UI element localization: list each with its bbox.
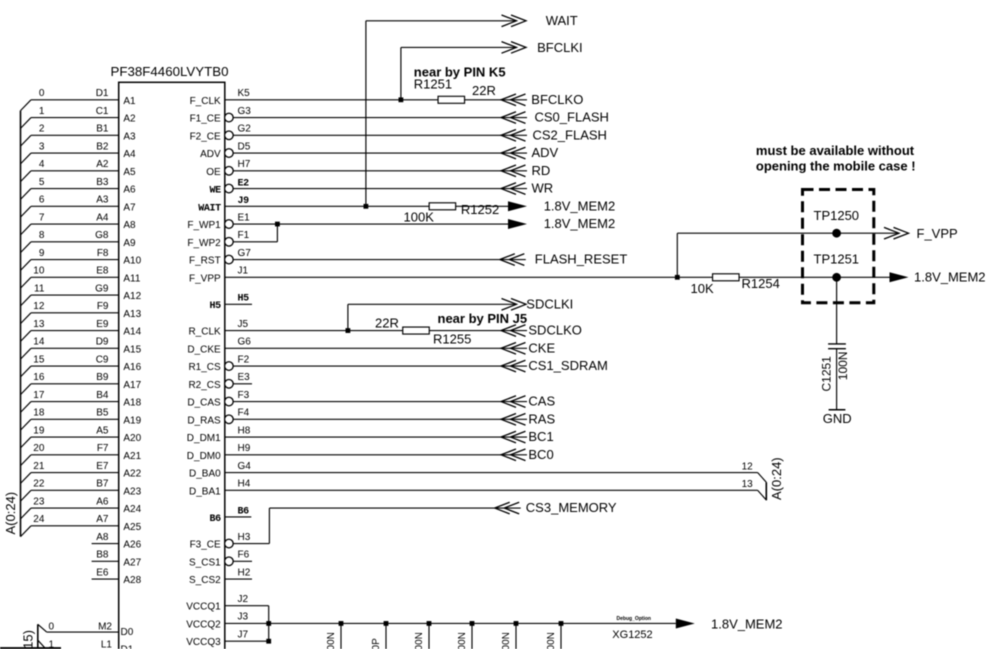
stub wire pin B6 [225,516,252,518]
svg-text:R2_CS: R2_CS [188,380,221,391]
sheet output arrow BFCLKI [502,42,517,54]
svg-text:F3_CE: F3_CE [190,540,221,551]
sheet input arrow CS1_SDRAM [501,360,516,372]
svg-text:8: 8 [39,230,45,241]
svg-text:FLASH_RESET: FLASH_RESET [535,252,628,267]
wire WAIT pin J9 to pullup R1252 [225,205,508,207]
svg-text:VCCQ1: VCCQ1 [186,602,221,613]
svg-text:A4: A4 [96,212,109,223]
wire bus bit 16 to pin A17 [31,383,119,385]
test point dashed enclosure [803,190,874,303]
wire bus bit 8 to pin A9 [31,241,119,243]
wire CS1_SDRAM from pin to arrow [233,365,527,367]
power arrow 1.8V_MEM2 (F_WP) [508,219,527,229]
svg-text:A3: A3 [96,195,109,206]
wire bus bit 18 to pin A19 [31,418,119,420]
svg-text:D1: D1 [96,88,109,99]
wire VCCQ3 pin J7 [225,640,269,642]
bus tap diagonal for bit 21 [21,473,32,484]
svg-text:10P: 10P [371,638,382,649]
power arrow 1.8V_MEM2 (VCCQ rail) [676,618,695,628]
svg-text:J7: J7 [238,629,249,640]
wire CS3_MEMORY line [269,507,520,509]
sheet input arrow RD [501,165,516,177]
wire RD from pin to arrow [233,170,527,172]
svg-text:CAS: CAS [528,394,555,409]
svg-text:L1: L1 [101,639,113,649]
svg-text:A18: A18 [123,398,141,409]
bus tap diagonal for bit 13 [21,331,32,342]
bus tap diagonal for bit 1 [21,118,32,129]
junction node VCCQ3 tie [266,639,271,644]
svg-text:H5: H5 [209,301,221,312]
inversion bubble on pin ADV [225,149,234,158]
bus tap diagonal for bit 11 [21,295,32,306]
bus tap diagonal for bit 2 [21,135,32,146]
svg-text:B8: B8 [96,550,109,561]
svg-text:J2: J2 [238,594,249,605]
wire vertical SDCLKI riser [347,304,349,330]
svg-text:E9: E9 [96,319,109,330]
svg-text:D5: D5 [238,141,251,152]
sheet input arrow CAS [501,396,516,408]
svg-text:C1: C1 [96,106,109,117]
resistor R1254 body 10K [713,274,740,281]
sheet input arrow WR [501,183,516,195]
svg-text:D_CAS: D_CAS [187,398,221,409]
svg-text:WAIT: WAIT [198,203,221,214]
wire F_VPP pin J1 to TP1251 [225,276,890,278]
sheet input arrow BFCLKO [501,94,516,106]
wire RAS from pin to arrow [233,418,527,420]
svg-text:2: 2 [39,124,45,135]
wire bus bit 12 to pin A13 [31,312,119,314]
svg-text:B6: B6 [238,507,250,518]
svg-text:1.8V_MEM2: 1.8V_MEM2 [711,616,783,631]
svg-text:A22: A22 [123,469,141,480]
junction node WAIT riser [364,204,369,209]
svg-text:H9: H9 [238,443,251,454]
wire CS0_FLASH from pin to arrow [233,117,527,119]
sheet output arrow F_VPP [884,227,899,239]
svg-text:A7: A7 [96,514,109,525]
svg-text:B3: B3 [96,177,109,188]
svg-text:R1252: R1252 [461,202,499,217]
svg-text:A12: A12 [123,291,141,302]
svg-text:F7: F7 [97,443,109,454]
junction node decoupling tap 2 [384,621,389,626]
svg-text:BC0: BC0 [528,447,553,462]
wire D_BA1 to address bus [225,489,758,491]
bus tap diagonal for bit 20 [21,455,32,466]
bus tap diagonal for bit 8 [21,242,32,253]
svg-text:Debug_Option: Debug_Option [617,616,651,622]
svg-text:PF38F4460LVYTB0: PF38F4460LVYTB0 [111,64,229,79]
sheet input arrow CKE [501,343,516,355]
wire bus bit 17 to pin A18 [31,401,119,403]
bus tap diagonal data bit 0 [38,624,47,632]
svg-text:E7: E7 [96,461,109,472]
wire decoupling cap drop 5 [515,623,517,649]
svg-text:A1: A1 [123,96,136,107]
svg-text:100N: 100N [501,632,512,649]
svg-text:opening the mobile case !: opening the mobile case ! [756,159,916,174]
svg-text:A28: A28 [123,575,141,586]
inversion bubble on pin F_RST [225,255,234,264]
data bus (0:15) vertical spine [37,624,39,649]
svg-text:A6: A6 [96,496,109,507]
wire bus bit 5 to pin A6 [31,188,119,190]
junction node VCCQ2 tie [266,621,271,626]
svg-text:M2: M2 [98,622,112,633]
svg-text:C1251: C1251 [819,356,833,392]
junction node decoupling tap 5 [514,621,519,626]
bus tap diagonal for bit 12 [21,313,32,324]
svg-text:15: 15 [33,354,45,365]
svg-text:ADV: ADV [532,145,559,160]
svg-text:E8: E8 [96,266,109,277]
wire decoupling cap drop 3 [428,623,430,649]
svg-text:0: 0 [48,622,54,633]
svg-text:A27: A27 [123,557,141,568]
wire bus bit 11 to pin A12 [31,294,119,296]
svg-text:F_VPP: F_VPP [189,273,221,284]
junction node F_WP tie [275,222,280,227]
wire F_VPP top branch to arrow [677,232,899,234]
wire bus bit 20 to pin A21 [31,454,119,456]
svg-text:0: 0 [39,88,45,99]
wire VCCQ2 supply rail [225,622,676,624]
svg-text:19: 19 [33,425,45,436]
svg-text:R1254: R1254 [742,276,780,291]
wire decoupling cap drop 1 [340,623,342,649]
svg-text:H2: H2 [238,567,251,578]
bus tap diagonal for bit 5 [21,189,32,200]
bus tap diagonal for bit 15 [21,366,32,377]
svg-text:G2: G2 [238,124,252,135]
wire bus bit 24 to pin A25 [31,525,119,527]
wire vertical F_VPP branch riser [676,233,678,277]
svg-text:5: 5 [39,177,45,188]
junction node decoupling tap 1 [339,621,344,626]
svg-text:22R: 22R [375,316,399,331]
sheet input arrow ADV [501,147,516,159]
junction node decoupling tap 4 [470,621,475,626]
svg-text:18: 18 [33,408,45,419]
svg-text:CS2_FLASH: CS2_FLASH [533,127,607,142]
svg-text:RAS: RAS [528,411,555,426]
svg-text:D_BA1: D_BA1 [189,486,221,497]
address bus A(0:24) spine (right) [765,482,767,500]
junction node decoupling tap 3 [427,621,432,626]
wire bus bit 7 to pin A8 [31,223,119,225]
svg-text:H5: H5 [238,294,250,305]
wire bus bit 14 to pin A15 [31,347,119,349]
bus tap diagonal for bit 10 [21,277,32,288]
wire CS2_FLASH from pin to arrow [233,134,527,136]
svg-text:F3: F3 [238,390,250,401]
svg-text:22: 22 [33,479,45,490]
svg-text:B2: B2 [96,141,109,152]
svg-text:F1_CE: F1_CE [190,114,221,125]
stub wire net E6 to pin A28 [92,578,119,580]
wire D_BA0 to address bus [225,472,758,474]
svg-text:(0:15): (0:15) [21,630,36,649]
svg-text:16: 16 [33,372,45,383]
svg-text:20: 20 [33,443,45,454]
svg-text:A25: A25 [123,522,141,533]
svg-text:D_RAS: D_RAS [187,415,221,426]
bus tap diagonal for bit 22 [21,490,32,501]
svg-text:WR: WR [532,181,554,196]
svg-text:F8: F8 [97,248,109,259]
svg-text:BFCLKO: BFCLKO [531,92,583,107]
inversion bubble on pin D_RAS [225,415,234,424]
svg-text:24: 24 [33,514,45,525]
wire bus bit 6 to pin A7 [31,205,119,207]
svg-text:D_BA0: D_BA0 [189,469,221,480]
svg-text:100N: 100N [546,632,557,649]
svg-text:G6: G6 [238,337,252,348]
svg-text:H8: H8 [238,425,251,436]
svg-text:F2: F2 [238,354,250,365]
wire vertical CS3_MEMORY riser [268,508,270,544]
svg-text:A11: A11 [123,273,140,284]
junction node decoupling tap 6 [559,621,564,626]
inversion bubble on pin S_CS1 [225,557,234,566]
svg-text:G8: G8 [95,230,109,241]
svg-text:J3: J3 [238,612,249,623]
wire bus bit 3 to pin A4 [31,152,119,154]
wire F_WP1 to pullup net [233,223,508,225]
wire vertical VCCQ tie [268,606,270,642]
svg-text:A8: A8 [96,532,109,543]
wire BFCLKI line [401,46,517,48]
wire VCCQ1 pin J2 [225,605,269,607]
svg-text:ADV: ADV [200,149,221,160]
svg-text:OE: OE [206,167,221,178]
svg-text:F2_CE: F2_CE [190,131,221,142]
wire bus bit 2 to pin A3 [31,134,119,136]
wire FLASH_RESET [233,259,526,261]
svg-text:A(0:24): A(0:24) [3,492,18,535]
svg-text:A10: A10 [123,256,141,267]
sheet input arrow BC0 [501,449,516,461]
svg-text:R_CLK: R_CLK [188,327,221,338]
wire bus bit 4 to pin A5 [31,170,119,172]
IC U1 PF38F4460LVYTB0 body outline [119,82,225,649]
svg-text:100N: 100N [326,632,337,649]
svg-text:A6: A6 [123,185,136,196]
sheet input arrow CS2_FLASH [501,130,516,142]
capacitor C1251 bottom plate [828,348,846,350]
wire bus bit 23 to pin A24 [31,507,119,509]
wire bus bit 22 to pin A23 [31,489,119,491]
wire bus bit 13 to pin A14 [31,330,119,332]
wire decoupling cap drop 2 [385,623,387,649]
stub wire net B8 to pin A27 [92,560,119,562]
svg-text:14: 14 [33,337,45,348]
svg-text:22R: 22R [472,83,496,98]
wire BC0 from pin to arrow [225,454,527,456]
svg-text:A13: A13 [123,309,141,320]
svg-text:G3: G3 [238,106,252,117]
svg-text:RD: RD [532,163,551,178]
sheet input arrow FLASH_RESET [500,254,515,266]
svg-text:CS1_SDRAM: CS1_SDRAM [528,358,607,373]
wire decoupling cap drop 6 [560,623,562,649]
svg-text:VCCQ3: VCCQ3 [186,637,221,648]
wire F_WP2 stub to tie [233,241,277,243]
wire bus bit 10 to pin A11 [31,276,119,278]
svg-text:1: 1 [39,106,45,117]
svg-text:E6: E6 [96,567,109,578]
svg-text:F_VPP: F_VPP [917,226,958,241]
power arrow 1.8V_MEM2 (F_VPP pullup) [890,272,909,282]
inversion bubble on pin D_CAS [225,397,234,406]
wire CAS from pin to arrow [233,401,527,403]
power arrow 1.8V_MEM2 (WAIT pullup) [508,201,527,211]
svg-text:D0: D0 [121,627,134,638]
svg-text:23: 23 [33,496,45,507]
svg-text:10K: 10K [691,281,714,296]
bus tap diagonal for bit 6 [21,206,32,217]
svg-text:12: 12 [33,301,45,312]
svg-text:A7: A7 [123,202,136,213]
bus tap diagonal for bit 16 [21,384,32,395]
svg-text:A14: A14 [123,327,141,338]
bus tap diagonal for bit 23 [21,508,32,519]
bus tap diagonal for bit 17 [21,402,32,413]
wire bus bit 9 to pin A10 [31,259,119,261]
svg-text:CS0_FLASH: CS0_FLASH [535,110,609,125]
svg-text:D_CKE: D_CKE [187,344,221,355]
inversion bubble on pin F1_CE [225,113,234,122]
svg-text:A2: A2 [123,114,136,125]
svg-text:A5: A5 [96,425,109,436]
sheet output arrow SDCLKI [502,299,517,311]
svg-text:TP1251: TP1251 [814,251,860,266]
junction node SDCLKI tap [346,328,351,333]
svg-text:A21: A21 [123,451,141,462]
svg-text:F4: F4 [238,408,250,419]
stub wire pin R2_CS [233,383,252,385]
sheet input arrow CS3_MEMORY [495,502,510,514]
wire C1251 to ground [836,349,838,410]
stub wire pin S_CS1 [233,560,252,562]
svg-text:WAIT: WAIT [546,13,578,28]
wire vertical BFCLKI riser [400,47,402,99]
svg-text:1.8V_MEM2: 1.8V_MEM2 [914,269,986,284]
svg-text:F_WP2: F_WP2 [187,238,221,249]
svg-text:A23: A23 [123,486,141,497]
svg-text:A9: A9 [123,238,136,249]
svg-text:D_DM0: D_DM0 [187,451,221,462]
svg-text:A20: A20 [123,433,141,444]
wire WAIT top line [366,20,517,22]
svg-text:near by PIN K5: near by PIN K5 [414,65,506,80]
wire F_CLK pin K5 to R1251 and BFCLKO arrow [225,99,527,101]
svg-text:A16: A16 [123,362,141,373]
wire bus bit 15 to pin A16 [31,365,119,367]
resistor R1252 body 100K [429,203,456,210]
svg-text:10: 10 [33,266,45,277]
svg-text:GND: GND [823,411,852,426]
junction node BFCLKI tap [399,97,404,102]
svg-text:100N: 100N [414,632,425,649]
wire decoupling cap drop 4 [471,623,473,649]
test point TP1251 pad [832,273,841,282]
bus tap diagonal for bit 7 [21,224,32,235]
bus tap diagonal for bit 0 [21,100,32,111]
svg-text:100N: 100N [457,632,468,649]
svg-text:TP1250: TP1250 [814,208,860,223]
svg-text:E2: E2 [238,178,250,189]
svg-text:C9: C9 [96,354,109,365]
svg-text:A15: A15 [123,344,141,355]
bus tap diagonal bit 13 [758,490,767,500]
svg-text:100K: 100K [404,209,435,224]
svg-text:J1: J1 [238,266,249,277]
bus tap diagonal for bit 24 [21,526,32,537]
svg-text:E3: E3 [238,372,251,383]
svg-text:D1: D1 [121,645,134,649]
wire data bit 0 to pin D0 [47,631,119,633]
inversion bubble on pin OE [225,167,234,176]
wire ADV from pin to arrow [233,152,527,154]
svg-text:D_DM1: D_DM1 [187,433,221,444]
svg-text:17: 17 [33,390,45,401]
test point TP1250 pad [832,229,841,238]
bus tap diagonal for bit 19 [21,437,32,448]
svg-text:A3: A3 [123,131,136,142]
bus tap diagonal for bit 14 [21,348,32,359]
sheet input arrow RAS [501,414,516,426]
address bus A(0:24) vertical spine [20,111,22,537]
svg-text:F_RST: F_RST [189,256,221,267]
inversion bubble on pin F3_CE [225,539,234,548]
wire vertical WAIT riser [365,21,367,207]
wire bus bit 0 to pin A1 [31,99,119,101]
svg-text:A4: A4 [123,149,136,160]
capacitor C1251 top plate [828,343,846,345]
svg-text:A(0:24): A(0:24) [769,457,784,500]
svg-text:A5: A5 [123,167,136,178]
svg-text:J5: J5 [238,319,249,330]
inversion bubble on pin F_WP1 [225,220,234,229]
wire WR from pin to arrow [233,188,527,190]
svg-text:H3: H3 [238,532,251,543]
svg-text:7: 7 [39,212,45,223]
svg-text:R1255: R1255 [433,331,471,346]
wire F3_CE to riser [233,543,269,545]
junction node F_VPP branch [675,275,680,280]
svg-text:B7: B7 [96,479,109,490]
svg-text:12: 12 [742,461,754,472]
stub wire pin H5 [225,303,252,305]
svg-text:F1: F1 [238,230,250,241]
svg-text:VCCQ2: VCCQ2 [186,619,221,630]
svg-text:S_CS1: S_CS1 [189,557,221,568]
svg-text:9: 9 [39,248,45,259]
wire CKE from pin to arrow [225,347,527,349]
svg-text:S_CS2: S_CS2 [189,575,221,586]
sheet input arrow SDCLKO [501,325,516,337]
bus tap diagonal for bit 18 [21,419,32,430]
svg-text:F_WP1: F_WP1 [187,220,221,231]
resistor R1255 body 22R [403,327,430,334]
svg-text:SDCLKI: SDCLKI [526,296,573,311]
